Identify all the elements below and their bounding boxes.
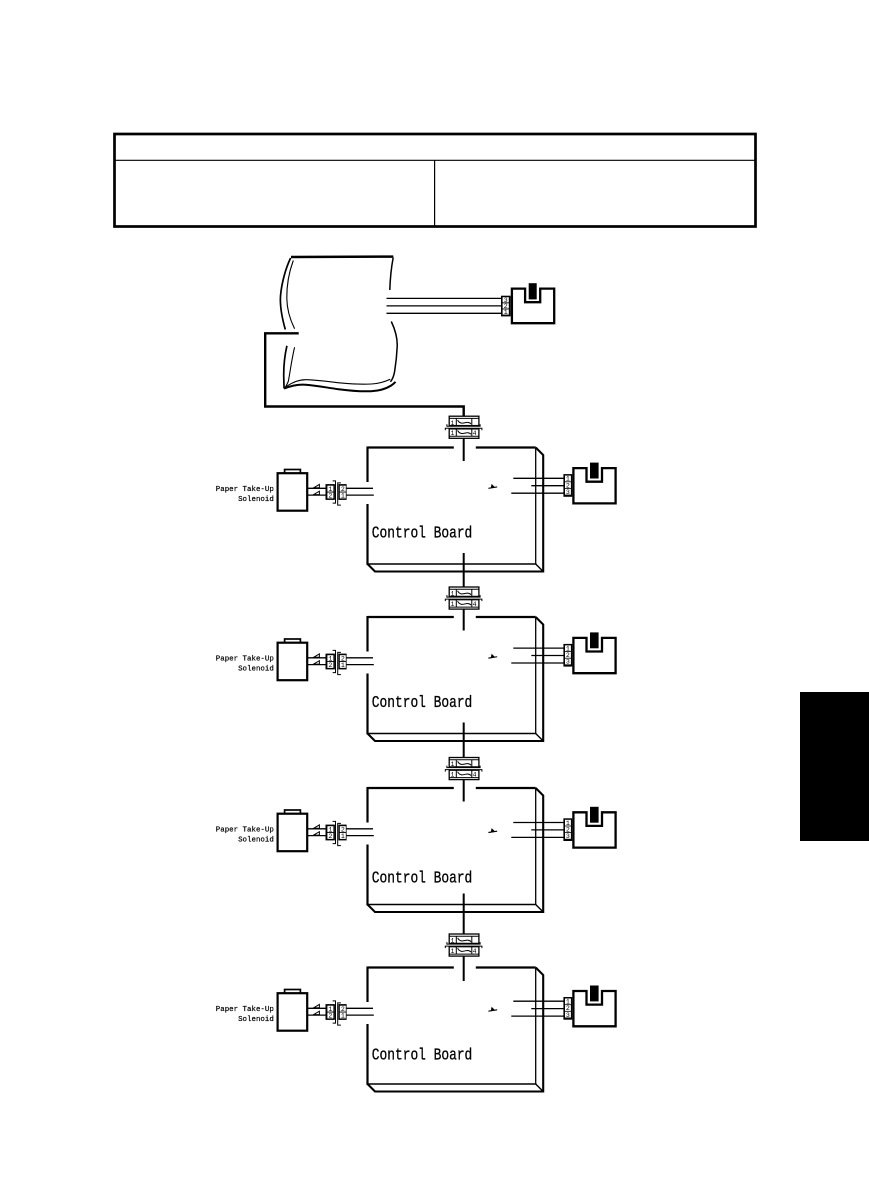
- solenoid wires: [307, 825, 325, 836]
- svg-text:Solenoid: Solenoid: [238, 666, 274, 674]
- wires to right connector: [511, 823, 563, 838]
- label: Paper Take-Up Solenoid: [216, 655, 274, 673]
- paper take-up solenoid: [278, 639, 308, 680]
- solenoid wires: [307, 1004, 325, 1015]
- solenoid wires: [307, 654, 325, 665]
- svg-text:4: 4: [473, 948, 477, 955]
- svg-text:2: 2: [328, 833, 332, 840]
- wire harness sheet: [280, 257, 397, 392]
- wires to right connector: [511, 478, 563, 493]
- svg-text:Control Board: Control Board: [372, 1047, 473, 1065]
- svg-text:Solenoid: Solenoid: [238, 837, 274, 845]
- svg-text:1: 1: [451, 771, 455, 778]
- label: Paper Take-Up Solenoid: [216, 1006, 274, 1024]
- svg-text:Paper Take-Up: Paper Take-Up: [216, 486, 274, 494]
- harness wires: [387, 298, 502, 313]
- control board box: [367, 447, 544, 572]
- direction arrow: [488, 656, 497, 659]
- svg-text:3: 3: [566, 1012, 570, 1019]
- connector pair (solenoid 2-pin): [326, 650, 347, 674]
- connector pair (solenoid 2-pin): [326, 481, 347, 505]
- svg-text:3: 3: [566, 659, 570, 666]
- wires to right connector: [511, 1001, 563, 1016]
- connector pair (solenoid 2-pin): [326, 1001, 347, 1025]
- vertical link wires: [463, 438, 465, 981]
- svg-text:Control Board: Control Board: [372, 525, 473, 543]
- wires into board: [347, 658, 374, 665]
- svg-text:1: 1: [451, 601, 455, 608]
- svg-text:1: 1: [451, 938, 455, 945]
- wires to right connector: [511, 648, 563, 663]
- right connector body: [573, 632, 615, 673]
- svg-text:1: 1: [451, 761, 455, 768]
- svg-text:1: 1: [451, 591, 455, 598]
- wires into board: [347, 829, 374, 836]
- svg-text:Paper Take-Up: Paper Take-Up: [216, 655, 274, 663]
- svg-text:Paper Take-Up: Paper Take-Up: [216, 1006, 274, 1014]
- direction arrow: [488, 486, 497, 489]
- svg-text:3: 3: [566, 489, 570, 496]
- top connector body: [512, 283, 554, 323]
- header table: [115, 134, 756, 227]
- svg-text:1: 1: [341, 662, 345, 669]
- svg-text:1: 1: [341, 493, 345, 500]
- inline connector pair: [445, 758, 482, 780]
- paper take-up solenoid: [278, 810, 308, 851]
- wires into board: [347, 488, 374, 495]
- paper take-up solenoid: [278, 470, 308, 511]
- svg-text:Control Board: Control Board: [372, 694, 473, 712]
- page edge tab: [800, 692, 869, 841]
- svg-text:1: 1: [451, 430, 455, 437]
- right connector body: [573, 986, 615, 1027]
- svg-text:Solenoid: Solenoid: [238, 1016, 274, 1024]
- right connector body: [573, 807, 615, 848]
- control board box: [367, 616, 544, 741]
- inline connector pair: [445, 416, 482, 438]
- svg-text:4: 4: [473, 430, 477, 437]
- svg-text:2: 2: [328, 662, 332, 669]
- svg-text:1: 1: [341, 833, 345, 840]
- pin block 3,2,1: [501, 296, 511, 317]
- direction arrow: [488, 831, 497, 834]
- svg-text:Solenoid: Solenoid: [238, 496, 274, 504]
- control board box: [367, 967, 544, 1092]
- control board box: [367, 787, 544, 912]
- svg-text:4: 4: [473, 771, 477, 778]
- svg-text:1: 1: [504, 309, 508, 316]
- inline connector pair: [445, 587, 482, 609]
- label: Paper Take-Up Solenoid: [216, 486, 274, 504]
- svg-text:Control Board: Control Board: [372, 870, 473, 888]
- connector pair (solenoid 2-pin): [326, 821, 347, 845]
- wires into board: [347, 1008, 374, 1015]
- svg-text:Paper Take-Up: Paper Take-Up: [216, 826, 274, 834]
- svg-text:2: 2: [328, 493, 332, 500]
- pin block 1,2,3: [563, 644, 572, 667]
- svg-text:1: 1: [451, 420, 455, 427]
- harness trunk wire: [265, 333, 464, 416]
- svg-text:1: 1: [341, 1013, 345, 1020]
- svg-text:3: 3: [566, 833, 570, 840]
- pin block 1,2,3: [563, 818, 572, 841]
- svg-text:2: 2: [328, 1013, 332, 1020]
- label: Paper Take-Up Solenoid: [216, 826, 274, 844]
- inline connector pair: [445, 934, 482, 956]
- solenoid wires: [307, 484, 325, 495]
- right connector body: [573, 463, 615, 504]
- paper take-up solenoid: [278, 990, 308, 1031]
- pin block 1,2,3: [563, 474, 572, 497]
- svg-text:1: 1: [451, 948, 455, 955]
- svg-text:4: 4: [473, 601, 477, 608]
- direction arrow: [488, 1009, 497, 1012]
- pin block 1,2,3: [563, 997, 572, 1020]
